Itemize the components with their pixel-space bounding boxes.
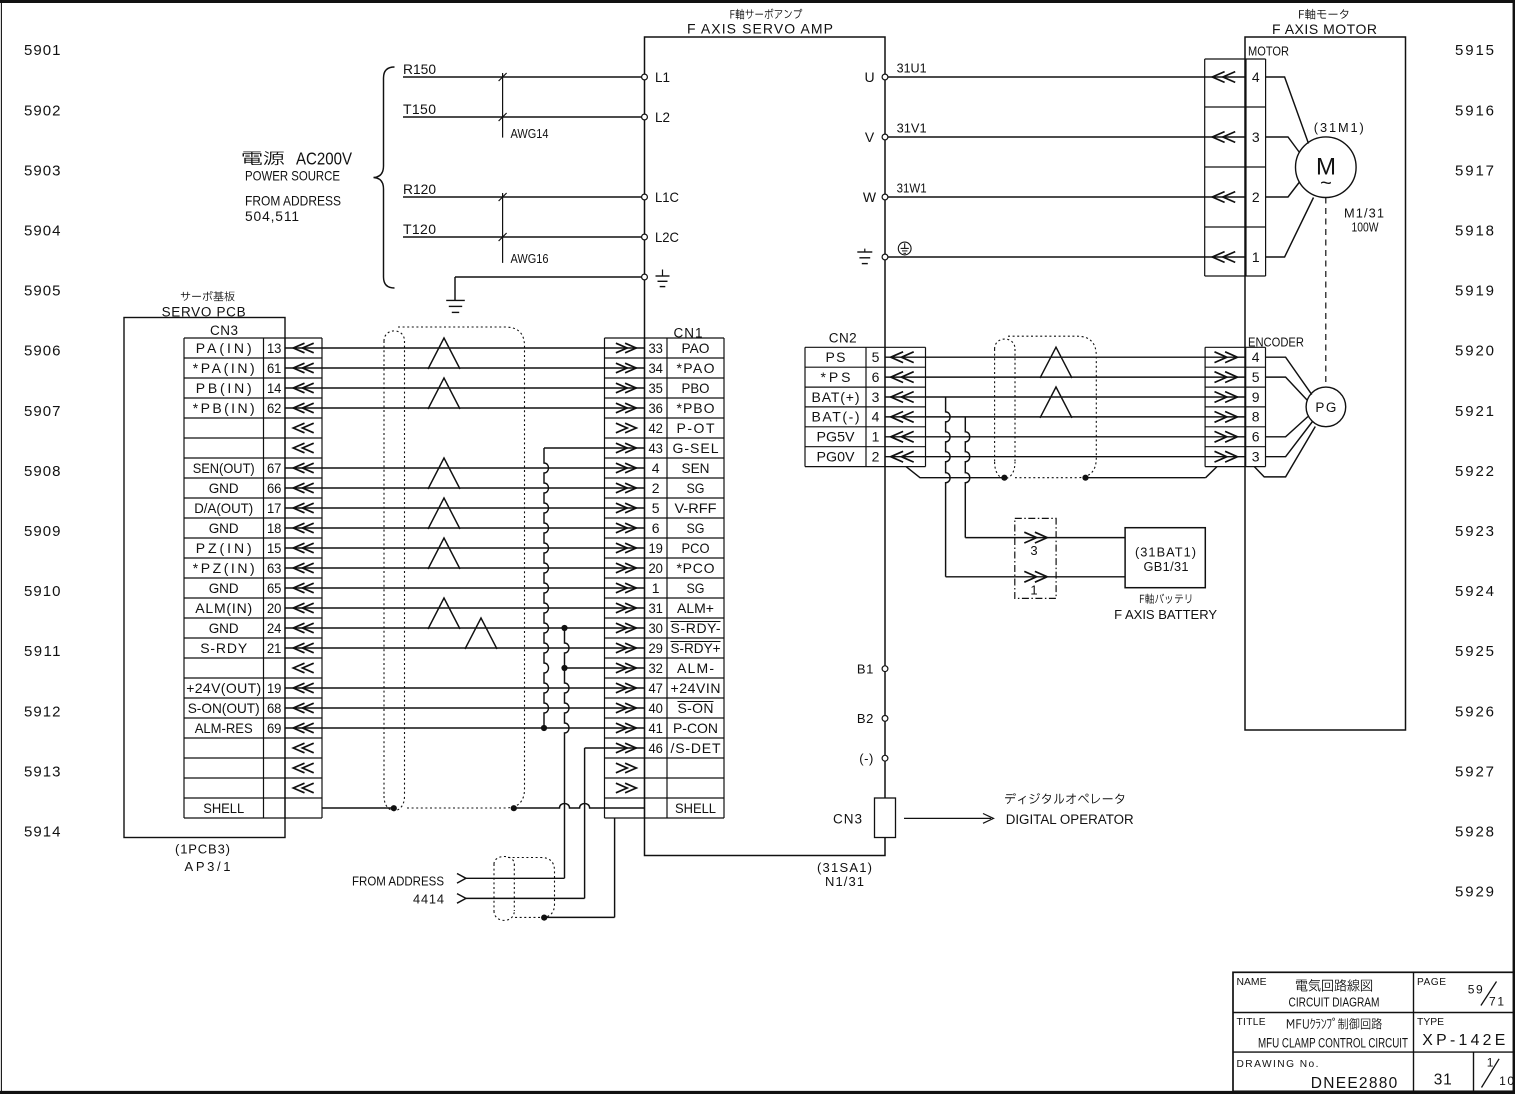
svg-text:(31M1): (31M1): [1314, 120, 1364, 135]
right margin line numbers 5915-5929: [1455, 42, 1494, 900]
svg-text:21: 21: [267, 640, 282, 656]
svg-text:1: 1: [1030, 582, 1037, 597]
CN3 pin 69 ALM-RES: [195, 720, 282, 736]
svg-text:F AXIS SERVO AMP: F AXIS SERVO AMP: [687, 20, 833, 36]
shell wire CN3 SHELL to CN1 SHELL: [322, 804, 645, 809]
svg-text:D/A(OUT): D/A(OUT): [194, 500, 253, 516]
power source label block 電源 AC200V: [243, 151, 285, 165]
svg-text:2: 2: [1252, 189, 1260, 205]
encoder connector pin 5: [1215, 369, 1260, 385]
terminal V, wire 31V1 to motor: [865, 121, 1246, 145]
label F AXIS SERVO AMP: [687, 20, 833, 36]
connector CN1 pin table (servo amp side): [605, 338, 725, 818]
svg-text:S-ON(OUT): S-ON(OUT): [188, 700, 260, 716]
svg-text:5904: 5904: [24, 223, 61, 240]
svg-text:31W1: 31W1: [897, 181, 927, 196]
svg-text:U: U: [864, 69, 874, 85]
CN2 pin 2 PG0V: [817, 449, 880, 465]
CN1 pin 30 S-RDY-: [648, 620, 720, 636]
wire BAT(-) to battery pin 3: [965, 417, 1125, 538]
svg-text:5919: 5919: [1455, 283, 1494, 300]
svg-text:5922: 5922: [1455, 463, 1494, 480]
CN1 pin 41 P-CON: [648, 720, 718, 736]
motor power connector table: [1205, 59, 1266, 276]
svg-text:46: 46: [648, 740, 663, 756]
svg-text:20: 20: [267, 600, 282, 616]
svg-text:SHELL: SHELL: [203, 800, 244, 816]
svg-text:5912: 5912: [24, 703, 61, 720]
svg-text:B2: B2: [857, 711, 874, 726]
svg-text:DRAWING No.: DRAWING No.: [1237, 1059, 1319, 1070]
svg-text:63: 63: [267, 560, 282, 576]
svg-text:71: 71: [1489, 994, 1504, 1008]
svg-text:DNEE2880: DNEE2880: [1311, 1075, 1398, 1092]
svg-text:100W: 100W: [1352, 220, 1380, 235]
svg-text:SHELL: SHELL: [675, 800, 716, 816]
svg-text:3: 3: [1252, 449, 1260, 465]
terminal L2: [642, 109, 671, 125]
motor winding wires to motor: [1266, 77, 1314, 257]
motor connector pin 2: [1212, 189, 1260, 205]
svg-text:*PCO: *PCO: [677, 560, 715, 576]
svg-text:POWER SOURCE: POWER SOURCE: [245, 169, 340, 184]
svg-text:31U1: 31U1: [897, 61, 927, 76]
svg-text:FROM ADDRESS: FROM ADDRESS: [352, 874, 444, 889]
CN1 shell to 4414 cable shield: [541, 818, 614, 921]
wire CN3 row 7 to CN1: [285, 467, 645, 469]
svg-text:CIRCUIT DIAGRAM: CIRCUIT DIAGRAM: [1289, 994, 1380, 1009]
cable shield screen (CN2-encoder): [995, 336, 1097, 478]
CN3 pin 67 SEN(OUT): [193, 460, 282, 476]
CN1 pin 36 *PBO: [648, 400, 714, 416]
CN3 pin 24 GND: [209, 620, 282, 636]
svg-text:PZ(IN): PZ(IN): [196, 540, 252, 556]
svg-text:(-): (-): [859, 751, 874, 766]
wire CN2 row 3 to encoder: [885, 396, 1246, 398]
svg-text:5926: 5926: [1455, 703, 1494, 720]
CN3 pin 17 D/A(OUT): [194, 500, 281, 516]
terminal L2C: [642, 229, 679, 245]
svg-text:18: 18: [267, 520, 282, 536]
svg-text:SEN: SEN: [682, 460, 710, 476]
svg-text:GND: GND: [209, 620, 239, 636]
designator (31M1): [1314, 120, 1364, 135]
CN1 pin 5 V-RFF: [652, 500, 717, 516]
svg-text:CN3: CN3: [210, 323, 238, 338]
CN1 pin 46 /S-DET: [648, 740, 720, 756]
svg-text:41: 41: [648, 720, 663, 736]
label F AXIS MOTOR: [1272, 21, 1377, 37]
svg-text:8: 8: [1252, 409, 1260, 425]
CN2 pin 6 *PS: [821, 369, 880, 385]
svg-text:V-RFF: V-RFF: [675, 500, 717, 516]
svg-text:(31BAT1): (31BAT1): [1135, 545, 1196, 560]
svg-text:SG: SG: [687, 480, 705, 496]
svg-text:5906: 5906: [24, 343, 61, 360]
terminal PE (right), earth wire to motor pin 1: [882, 254, 1246, 260]
svg-text:NAME: NAME: [1237, 977, 1267, 988]
svg-text:L1C: L1C: [655, 189, 679, 205]
svg-text:2: 2: [652, 480, 660, 496]
wire CN3 row 19 to CN1: [285, 707, 645, 709]
svg-text:36: 36: [648, 400, 663, 416]
encoder connector table: [1205, 347, 1265, 466]
svg-text:5918: 5918: [1455, 223, 1494, 240]
svg-text:+24VIN: +24VIN: [671, 680, 721, 696]
svg-text:29: 29: [648, 640, 663, 656]
svg-text:5: 5: [872, 349, 880, 365]
svg-text:M1/31: M1/31: [1344, 206, 1384, 221]
CN3 pin shell SHELL: [203, 800, 244, 816]
CN1 pin 47 +24VIN: [648, 680, 720, 696]
svg-text:2: 2: [872, 449, 880, 465]
svg-text:DIGITAL OPERATOR: DIGITAL OPERATOR: [1006, 812, 1134, 827]
svg-text:S-ON: S-ON: [678, 700, 714, 716]
svg-text:GB1/31: GB1/31: [1144, 559, 1189, 574]
CN3 pin 13 PA(IN): [196, 340, 282, 356]
svg-text:31: 31: [648, 600, 663, 616]
wire CN2 row 4 to encoder: [885, 416, 1246, 418]
svg-text:9: 9: [1252, 389, 1260, 405]
svg-text:5: 5: [1252, 369, 1260, 385]
svg-text:5910: 5910: [24, 583, 61, 600]
connector CN2 label: [829, 330, 857, 345]
svg-text:AWG16: AWG16: [511, 251, 549, 266]
svg-text:S-RDY: S-RDY: [200, 640, 248, 656]
wire CN2 row 5 to encoder: [885, 436, 1246, 438]
svg-text:65: 65: [267, 580, 282, 596]
CN2 pin 3 BAT(+): [812, 389, 880, 405]
CN3 pin 63 *PZ(IN): [193, 560, 282, 576]
svg-text:5909: 5909: [24, 523, 61, 540]
svg-text:P-CON: P-CON: [673, 720, 718, 736]
CN2 pin 4 BAT(-): [812, 409, 880, 425]
wire CN3 row 2 to CN1: [285, 367, 645, 369]
title block DRAWING No. DNEE2880 31 1/10: [1237, 1055, 1515, 1092]
svg-text:24: 24: [267, 620, 282, 636]
CN1 pin 43 G-SEL: [648, 440, 718, 456]
svg-text:13: 13: [267, 340, 282, 356]
wire CN3 row 12 to CN1: [285, 567, 645, 569]
wire CN3 row 20 to CN1: [285, 727, 645, 729]
svg-text:3: 3: [872, 389, 880, 405]
svg-text:R120: R120: [403, 181, 436, 197]
CN3 pin 62 *PB(IN): [193, 400, 282, 416]
arrow to digital operator: [904, 814, 994, 824]
encoder connector pin 3: [1215, 449, 1260, 465]
CN2 cable-side chevron contacts: [891, 352, 914, 462]
svg-text:15: 15: [267, 540, 282, 556]
svg-text:35: 35: [648, 380, 663, 396]
svg-text:W: W: [863, 189, 877, 205]
wire CN3 row 11 to CN1: [285, 547, 645, 549]
wire CN3 row 10 to CN1: [285, 527, 645, 529]
CN1 pin 32 ALM-: [648, 660, 714, 676]
CN1 pin 40 S-ON: [648, 700, 713, 716]
svg-text:6: 6: [872, 369, 880, 385]
svg-text:19: 19: [267, 680, 282, 696]
svg-text:47: 47: [648, 680, 663, 696]
connector CN3 label (servo pcb): [210, 323, 238, 338]
svg-text:ALM-: ALM-: [677, 660, 714, 676]
designator (31SA1) N1/31: [817, 860, 872, 889]
label FROM ADDRESS 504,511: [245, 194, 341, 225]
svg-text:504,511: 504,511: [245, 209, 299, 224]
svg-text:PB(IN): PB(IN): [196, 380, 252, 396]
svg-text:4: 4: [1252, 349, 1260, 365]
battery (31BAT1) GB1/31: [1125, 528, 1205, 588]
svg-text:19: 19: [648, 540, 663, 556]
svg-text:T120: T120: [403, 221, 436, 237]
svg-text:1: 1: [652, 580, 660, 596]
svg-text:5916: 5916: [1455, 102, 1494, 119]
svg-text:59: 59: [1468, 982, 1483, 996]
svg-text:4: 4: [1252, 69, 1260, 85]
svg-text:PG5V: PG5V: [817, 429, 856, 445]
encoder shell wire to PG: [1254, 427, 1315, 477]
svg-text:62: 62: [267, 400, 282, 416]
svg-text:F AXIS MOTOR: F AXIS MOTOR: [1272, 21, 1377, 37]
svg-text:5902: 5902: [24, 102, 61, 119]
dashed shaft link motor to encoder: [1325, 198, 1327, 388]
wire CN2 row 6 to encoder: [885, 456, 1246, 458]
svg-text:69: 69: [267, 720, 282, 736]
connector CN3 pin table (servo pcb side): [184, 338, 322, 818]
CN1 pin 33 PAO: [648, 340, 709, 356]
CN1 pin 6 SG: [652, 520, 705, 536]
motor connector pin 1: [1212, 249, 1260, 265]
CN1 pin 19 PCO: [648, 540, 709, 556]
arrow from address (top): [457, 874, 466, 884]
svg-text:14: 14: [267, 380, 282, 396]
label サーボ基板 SERVO PCB: [181, 291, 235, 301]
wire CN3 row 18 to CN1: [285, 687, 645, 689]
wire CN2 row 1 to encoder: [885, 356, 1246, 358]
CN3 cable-side chevron contacts: [293, 343, 313, 793]
svg-text:N1/31: N1/31: [825, 874, 864, 889]
svg-text:5923: 5923: [1455, 523, 1494, 540]
svg-text:5903: 5903: [24, 162, 61, 179]
svg-text:TITLE: TITLE: [1237, 1017, 1266, 1028]
wire CN3 row 9 to CN1: [285, 507, 645, 509]
terminal U, wire 31U1 to motor: [864, 61, 1246, 85]
svg-text:P-OT: P-OT: [677, 420, 715, 436]
svg-text:BAT(-): BAT(-): [812, 409, 860, 425]
wire R150 to servo amp: [403, 61, 645, 77]
svg-text:CN2: CN2: [829, 330, 857, 345]
svg-text:PG0V: PG0V: [817, 449, 856, 465]
CN3 pin 14 PB(IN): [196, 380, 282, 396]
svg-text:20: 20: [648, 560, 663, 576]
CN1 cable-side chevron contacts: [616, 343, 636, 793]
label ディジタルオペレータ DIGITAL OPERATOR: [1005, 793, 1124, 804]
svg-text:(1PCB3): (1PCB3): [175, 841, 230, 856]
svg-text:FROM ADDRESS: FROM ADDRESS: [245, 194, 341, 209]
svg-text:PG: PG: [1315, 400, 1336, 415]
svg-text:17: 17: [267, 500, 282, 516]
svg-text:5927: 5927: [1455, 763, 1494, 780]
svg-text:S-RDY+: S-RDY+: [671, 640, 721, 656]
svg-text:30: 30: [648, 620, 663, 636]
twisted pair marks (signal cable): [428, 338, 497, 649]
CN1 pin 42 P-OT: [648, 420, 714, 436]
svg-text:31V1: 31V1: [897, 121, 927, 136]
servo amplifier U1 F AXIS SERVO AMP outline: [645, 37, 886, 856]
svg-text:PS: PS: [826, 349, 846, 365]
svg-text:F AXIS BATTERY: F AXIS BATTERY: [1114, 607, 1217, 622]
encoder connector pin 9: [1215, 389, 1260, 405]
svg-text:67: 67: [267, 460, 282, 476]
CN1 pin 2 SG: [652, 480, 705, 496]
svg-text:5901: 5901: [24, 42, 61, 59]
twisted pair marks (encoder cable): [1040, 347, 1072, 418]
servo PCB board AP3/1 outline: [124, 318, 285, 838]
svg-text:1: 1: [1487, 1055, 1494, 1069]
wire CN3 row 1 to CN1: [285, 347, 645, 349]
svg-text:L1: L1: [655, 69, 670, 85]
svg-text:31: 31: [1434, 1071, 1452, 1088]
terminal B1: [857, 661, 888, 676]
wire CN3 row 16 to CN1: [285, 647, 645, 649]
wire branch S-RDY-/ALM- down to FROM ADDRESS wire: [466, 625, 645, 878]
cable gauge AWG16: [499, 193, 549, 266]
svg-text:4414: 4414: [413, 892, 444, 907]
wire R120 to servo amp: [403, 181, 645, 197]
svg-text:66: 66: [267, 480, 282, 496]
CN1 pin 20 *PCO: [648, 560, 714, 576]
CN1 pin 29 S-RDY+: [648, 640, 720, 656]
connector CN2 pin table: [805, 347, 926, 466]
svg-text:5915: 5915: [1455, 42, 1494, 59]
label F軸バッテリ F AXIS BATTERY: [1140, 594, 1191, 604]
label F軸モータ: [1299, 9, 1348, 20]
protective earth circle symbol: [898, 242, 911, 255]
svg-text:33: 33: [648, 340, 663, 356]
svg-text:4: 4: [872, 409, 880, 425]
svg-text:MOTOR: MOTOR: [1248, 43, 1289, 58]
CN3 pin 19 +24V(OUT): [186, 680, 281, 696]
connector CN3 (digital operator port): [833, 798, 896, 838]
ground symbol (power input): [446, 300, 465, 312]
CN3 pin 66 GND: [209, 480, 282, 496]
svg-text:CN3: CN3: [833, 812, 862, 827]
svg-text:32: 32: [648, 660, 663, 676]
svg-text:4: 4: [652, 460, 660, 476]
svg-text:PBO: PBO: [682, 380, 710, 396]
CN3 pin 21 S-RDY: [200, 640, 281, 656]
svg-text:1: 1: [872, 429, 880, 445]
brace for power source group: [374, 67, 395, 288]
svg-text:R150: R150: [403, 61, 436, 77]
CN3 pin 18 GND: [209, 520, 282, 536]
svg-text:SG: SG: [687, 520, 705, 536]
svg-text:AWG14: AWG14: [511, 126, 549, 141]
svg-text:PCO: PCO: [682, 540, 710, 556]
svg-text:6: 6: [652, 520, 660, 536]
svg-text:T150: T150: [403, 101, 436, 117]
battery connector (dash-dot) with pins 3,1: [1015, 518, 1056, 598]
svg-text:5917: 5917: [1455, 162, 1494, 179]
svg-text:GND: GND: [209, 520, 239, 536]
arrow from address (bottom): [457, 894, 466, 904]
svg-text:*PB(IN): *PB(IN): [193, 400, 255, 416]
svg-text:L2C: L2C: [655, 229, 679, 245]
svg-text:~: ~: [1320, 173, 1332, 195]
CN1 pin 35 PBO: [648, 380, 709, 396]
svg-text:BAT(+): BAT(+): [812, 389, 860, 405]
encoder connector pin 8: [1215, 409, 1260, 425]
cable gauge AWG14: [499, 73, 549, 141]
svg-text:5913: 5913: [24, 763, 61, 780]
wire CN2 row 2 to encoder: [885, 376, 1246, 378]
CN1 pin 31 ALM+: [648, 600, 714, 616]
CN3 pin 68 S-ON(OUT): [188, 700, 282, 716]
svg-text:5929: 5929: [1455, 884, 1494, 901]
terminal L1C: [642, 189, 679, 205]
wire /S-DET (CN1 46) down to 4414 wire: [466, 748, 645, 898]
title block TYPE XP-142E: [1417, 1017, 1505, 1049]
svg-text:V: V: [865, 129, 875, 145]
svg-text:SEN(OUT): SEN(OUT): [193, 460, 255, 476]
svg-text:(31SA1): (31SA1): [817, 860, 872, 875]
label ENCODER: [1248, 334, 1304, 349]
title block PAGE 59/71: [1417, 977, 1504, 1009]
svg-text:SERVO PCB: SERVO PCB: [162, 304, 246, 319]
svg-text:5: 5: [652, 500, 660, 516]
CN2 pin 5 PS: [826, 349, 880, 365]
encoder cable drain wire: [906, 467, 1217, 481]
encoder wires to PG: [1266, 357, 1313, 457]
svg-text:ALM(IN): ALM(IN): [195, 600, 252, 616]
designator (1PCB3) AP3/1: [175, 841, 231, 874]
wire BAT(+) to battery pin 1: [946, 397, 1126, 577]
svg-text:GND: GND: [209, 580, 239, 596]
svg-text:61: 61: [267, 360, 282, 376]
svg-text:68: 68: [267, 700, 282, 716]
CN1 pin 4 SEN: [652, 460, 710, 476]
title block NAME 電気回路線図 CIRCUIT DIAGRAM: [1237, 977, 1267, 988]
CN3 pin 65 GND: [209, 580, 282, 596]
shield drain junction dots: [391, 805, 517, 811]
svg-text:GND: GND: [209, 480, 239, 496]
svg-text:AC200V: AC200V: [296, 149, 352, 169]
CN1 pin 34 *PAO: [648, 360, 714, 376]
wire CN3 row 13 to CN1: [285, 587, 645, 589]
svg-text:+24V(OUT): +24V(OUT): [186, 680, 261, 696]
svg-text:L2: L2: [655, 109, 670, 125]
svg-text:42: 42: [648, 420, 663, 436]
label F軸サーボアンプ: [730, 9, 802, 20]
svg-text:43: 43: [648, 440, 663, 456]
encoder connector pin 4: [1215, 349, 1260, 365]
svg-text:MFU CLAMP CONTROL CIRCUIT: MFU CLAMP CONTROL CIRCUIT: [1258, 1035, 1408, 1051]
ground wire to servo amp PE terminal: [455, 277, 645, 300]
encoder connector pin 6: [1215, 429, 1260, 445]
svg-text:5908: 5908: [24, 463, 61, 480]
motor connector pin 4: [1212, 69, 1260, 85]
title block TITLE MFUクランプ制御回路: [1237, 1017, 1266, 1028]
svg-text:TYPE: TYPE: [1417, 1017, 1444, 1028]
wire T150 to servo amp: [403, 101, 645, 117]
cable shield screen (FROM ADDRESS 4414 cable): [494, 857, 555, 921]
CN1 pin 1 SG: [652, 580, 705, 596]
earth symbol left of PE terminal: [857, 249, 872, 264]
CN3 pin 20 ALM(IN): [195, 600, 281, 616]
terminal PE (left) with earth symbol: [642, 270, 670, 287]
CN1 pin shell SHELL: [675, 800, 716, 816]
title block frame: [1233, 972, 1514, 1091]
svg-text:G-SEL: G-SEL: [673, 440, 719, 456]
